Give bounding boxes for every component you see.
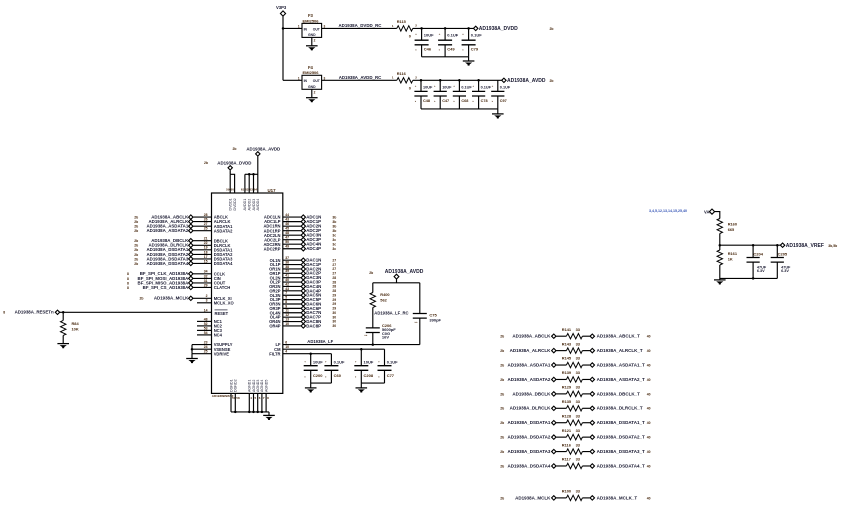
svg-text:+: + (439, 32, 441, 36)
svg-text:C208: C208 (364, 373, 374, 378)
stub wire pin NC1 (197, 320, 212, 322)
svg-text:U17: U17 (268, 188, 277, 193)
svg-text:6.3V: 6.3V (781, 269, 789, 273)
svg-text:10UF: 10UF (364, 360, 374, 365)
ground under F4 (306, 98, 318, 103)
off-page connector AD1938A_DSDATA2 (552, 435, 556, 439)
capacitor C48 10UF (414, 91, 427, 96)
svg-text:2b: 2b (134, 248, 138, 252)
svg-text:2: 2 (206, 294, 208, 298)
svg-text:53: 53 (204, 326, 208, 330)
capacitor C205 47UF (771, 258, 784, 263)
wire net AD1938A_ASDATA1 to pin ASDATA1 (193, 225, 211, 227)
svg-text:25: 25 (204, 227, 208, 231)
wire DVDD pin1 stub (229, 174, 231, 193)
junction AGND rail (248, 411, 251, 414)
svg-text:40: 40 (647, 464, 651, 468)
svg-text:1K: 1K (728, 256, 733, 261)
off-page connector AD1938A_DLRCLK_T (590, 406, 594, 410)
wire pin OL1P to net DAC1P (283, 264, 301, 266)
svg-text:R160: R160 (728, 221, 737, 226)
svg-text:EMI2506: EMI2506 (303, 70, 320, 75)
svg-text:0: 0 (409, 85, 411, 90)
svg-text:F3: F3 (308, 13, 314, 18)
wire net BF_SPI_CS_AD1938A to pin CLATCH (193, 286, 211, 288)
wire LF top rail (373, 282, 420, 284)
svg-text:IN: IN (304, 27, 308, 31)
svg-text:AD1938A_DSDATA3: AD1938A_DSDATA3 (508, 449, 551, 454)
off-page connector AD1938A_DSDATA4_T (590, 464, 594, 468)
svg-text:8: 8 (127, 281, 129, 285)
svg-text:10K: 10K (72, 327, 79, 332)
off-page connector AD1938A_DSDATA3_T (590, 449, 594, 453)
svg-text:MCLK_XO: MCLK_XO (214, 300, 235, 305)
junction AVDD bus (248, 173, 251, 176)
svg-text:2b: 2b (134, 262, 138, 266)
svg-text:40: 40 (647, 378, 651, 382)
svg-text:10: 10 (285, 345, 289, 349)
wire AGND2 pin (253, 393, 255, 412)
off-page connector AD1938A_DLRCLK (189, 243, 193, 247)
svg-text:ADC2RP: ADC2RP (264, 246, 281, 251)
svg-text:AD1938A_DSDATA4: AD1938A_DSDATA4 (146, 261, 188, 266)
wire pin OR3N to net DAC6N (283, 303, 301, 305)
svg-text:AD1938A_MCLK: AD1938A_MCLK (515, 495, 551, 500)
off-page connector AD1938A_DVDD top (228, 166, 232, 170)
svg-text:8: 8 (127, 272, 129, 276)
wire C78 to bottom rail (478, 96, 480, 109)
svg-text:AD1938A_DSDATA4_T: AD1938A_DSDATA4_T (597, 463, 645, 468)
wire C205 to bottom rail (776, 262, 778, 278)
svg-text:30: 30 (332, 324, 336, 328)
svg-text:2b: 2b (134, 220, 138, 224)
wire R143 to AD1938A_ALRCLK_T (582, 350, 590, 352)
svg-text:4: 4 (285, 350, 287, 354)
wire R121 to AD1938A_DSDATA2_T (582, 436, 590, 438)
svg-text:AVDD4: AVDD4 (256, 199, 260, 211)
wire bottom rail to ground (468, 57, 470, 61)
wire net BF_SPI_MISO_AD1938A to pin COUT (193, 282, 211, 284)
off-page connector AD1938A_DSDATA4 (189, 261, 193, 265)
svg-text:43: 43 (285, 218, 289, 222)
junction bottom rail (752, 277, 755, 280)
resistor R117 33 (566, 463, 582, 468)
svg-text:0.1UF: 0.1UF (447, 33, 458, 38)
wire net AD1938A_ASDATA2 to pin ASDATA2 (193, 230, 211, 232)
svg-text:2b: 2b (134, 257, 138, 261)
resistor R161 1K (717, 250, 722, 265)
wire AVDD pin stub x=244.9 (244, 174, 246, 193)
wire C48 to bottom rail (420, 96, 422, 109)
wire pin OL2N to net DAC3N (283, 277, 301, 279)
svg-text:0.1UF: 0.1UF (334, 360, 345, 365)
svg-text:AD1938A_DSDATA2: AD1938A_DSDATA2 (508, 435, 551, 440)
svg-text:2b: 2b (134, 253, 138, 257)
svg-text:AD1938A_DBCLK: AD1938A_DBCLK (512, 391, 551, 396)
wire R129 to AD1938A_DBCLK_T (582, 393, 590, 395)
wire AD1938A_DSDATA1 to R128 (556, 422, 566, 424)
resistor R116 0 ohm (397, 78, 413, 83)
svg-text:AD1938A_ABCLK_T: AD1938A_ABCLK_T (597, 334, 641, 339)
svg-text:AD1938A_AVDD: AD1938A_AVDD (246, 146, 280, 151)
wire net AD1938A_DSDATA3 to pin DSDATA3 (193, 258, 211, 260)
off-page connector AD1938A_ASDATA1 (189, 224, 193, 228)
wire DGND1 pin (230, 393, 232, 412)
wire net AD1938A_MCLK to pin MCLK_XI (193, 297, 211, 299)
wire R117 to AD1938A_DSDATA4_T (582, 465, 590, 467)
wire AD1938A_MCLK to R100 (556, 497, 566, 499)
svg-text:34: 34 (204, 270, 208, 274)
svg-text:DSDATA4: DSDATA4 (214, 261, 233, 266)
svg-text:GND: GND (308, 33, 316, 37)
svg-text:AD1938A_LF: AD1938A_LF (307, 339, 333, 344)
wire C204 to bottom rail (752, 262, 754, 278)
svg-text:GND: GND (308, 85, 316, 89)
wire C49 to bottom rail (444, 45, 446, 57)
wire rail to C79 (468, 28, 470, 40)
off-page connector AD1938A_DSDATA1 (189, 248, 193, 252)
svg-text:2b: 2b (500, 349, 504, 353)
svg-text:2: 2 (314, 90, 316, 94)
off-page connector BF_SPI_MISO_AD1938A (189, 281, 193, 285)
wire DVDD cap bottom rail (422, 56, 469, 58)
svg-text:AD1938A_AVDD: AD1938A_AVDD (507, 78, 546, 84)
wire R116 to AD1938A_DSDATA3_T (582, 451, 590, 453)
wire AD1938A_DSDATA2 to R121 (556, 436, 566, 438)
wire AD1938A_DSDATA4 to R117 (556, 465, 566, 467)
svg-text:AD1938A_ASDATA2: AD1938A_ASDATA2 (146, 228, 188, 233)
off-page connector DAC3N (301, 276, 305, 280)
wire net AD1938A_ABCLK to pin ABCLK (193, 216, 211, 218)
power symbol VA (709, 209, 714, 214)
capacitor C78 0.1UF (472, 91, 485, 96)
wire pin ADC1LP to net ADC1P (283, 221, 301, 223)
svg-text:AD1938A_AVDD_RC: AD1938A_AVDD_RC (339, 75, 382, 80)
capacitor C46 10UF (415, 40, 429, 45)
wire rail to R400 (372, 283, 374, 293)
wire C200 to gnd rail (310, 370, 312, 383)
svg-text:BF_SPI_CS_AD1938A: BF_SPI_CS_AD1938A (143, 285, 189, 290)
svg-text:3c: 3c (332, 242, 336, 246)
wire R135 to AD1938A_DLRCLK_T (582, 407, 590, 409)
wire pin ADC2RP to net ADC4P (283, 248, 301, 250)
svg-text:R117: R117 (562, 457, 571, 462)
svg-text:14: 14 (204, 309, 208, 313)
svg-text:C79: C79 (471, 46, 479, 51)
svg-text:8: 8 (127, 277, 129, 281)
off-page connector AD1938A_ASDATA1_T (590, 363, 594, 367)
svg-text:C77: C77 (387, 373, 395, 378)
off-page connector ADC1P (301, 219, 305, 223)
svg-text:2b: 2b (500, 378, 504, 382)
wire R145 to AD1938A_ASDATA1_T (582, 364, 590, 366)
svg-text:AD1938A_RESETn: AD1938A_RESETn (15, 310, 54, 315)
wire rail to C47 (439, 80, 441, 91)
junction LF C206 (372, 343, 375, 346)
svg-text:DAC8P: DAC8P (306, 323, 321, 328)
svg-text:FILTR: FILTR (269, 351, 280, 356)
wire pin ADC2LN to net ADC3N (283, 234, 301, 236)
svg-text:562: 562 (380, 298, 387, 303)
wire R128 to AD1938A_DSDATA1_T (582, 422, 590, 424)
svg-text:19: 19 (204, 246, 208, 250)
svg-text:40: 40 (647, 450, 651, 454)
stub wire pin NC3 (197, 329, 212, 331)
resistor R121 33 (566, 434, 582, 439)
svg-text:AD1938A_LF_RC: AD1938A_LF_RC (374, 311, 408, 316)
off-page connector AD1938A_ALRCLK_T (590, 348, 594, 352)
svg-text:60: 60 (231, 187, 235, 191)
wire pin OR1P to net DAC2P (283, 272, 301, 274)
junction AGND rail (252, 411, 255, 414)
capacitor C49 0.1UF (438, 40, 452, 45)
wire V3P3 vertical feed (282, 16, 284, 80)
wire pin ADC1RN to net ADC2N (283, 225, 301, 227)
svg-text:R116: R116 (397, 71, 407, 76)
svg-text:AD1938A_MCLK: AD1938A_MCLK (154, 296, 189, 301)
junction rail cap C68 (458, 79, 461, 82)
off-page connector DAC7N (301, 311, 305, 315)
svg-text:2b: 2b (134, 239, 138, 243)
svg-text:IN: IN (304, 79, 308, 83)
wire pair1 to ground (310, 383, 312, 387)
svg-text:AD1938A_VREF: AD1938A_VREF (786, 243, 824, 249)
stub wire pin MCLK_XO (197, 302, 212, 304)
svg-text:40: 40 (647, 392, 651, 396)
svg-text:AD1938A_ASDATA2: AD1938A_ASDATA2 (508, 377, 551, 382)
wire AGND4 pin (261, 393, 263, 412)
svg-text:R400: R400 (380, 292, 389, 297)
off-page connector ADC4N (301, 242, 305, 246)
off-page connector AD1938A_ASDATA2_T (590, 377, 594, 381)
wire DVDD bus (230, 174, 234, 193)
svg-text:0.1UF: 0.1UF (500, 85, 511, 89)
svg-text:DVDD1: DVDD1 (229, 198, 233, 210)
off-page connector AD1938A_DSDATA1_T (590, 421, 594, 425)
junction DGND rail (234, 411, 237, 414)
svg-text:DVDD2: DVDD2 (233, 198, 237, 210)
off-page connector AD1938A_ABCLK (552, 334, 556, 338)
capacitor C206 5600pF (366, 328, 380, 333)
off-page connector AD1938A_ABCLK (189, 215, 193, 219)
svg-text:665: 665 (728, 227, 735, 232)
svg-text:2b: 2b (500, 363, 504, 367)
off-page connector DAC4N (301, 284, 305, 288)
svg-text:1: 1 (298, 77, 300, 81)
off-page connector DAC4P (301, 289, 305, 293)
svg-text:R116: R116 (562, 442, 572, 447)
svg-text:48: 48 (285, 231, 289, 235)
off-page connector ADC3P (301, 238, 305, 242)
svg-text:3c: 3c (332, 233, 336, 237)
svg-text:AD1938A_ASDATA1_T: AD1938A_ASDATA1_T (597, 362, 645, 367)
stub wire pin NC4 (197, 334, 212, 336)
svg-text:40: 40 (647, 349, 651, 353)
svg-text:C49: C49 (447, 46, 455, 51)
wire tie bar to ground (191, 354, 193, 358)
svg-text:31: 31 (204, 279, 208, 283)
off-page connector BF_SPI_CLK_AD1938A (189, 272, 193, 276)
off-page connector AD1938A_VREF (780, 243, 784, 247)
svg-text:0: 0 (409, 34, 411, 39)
wire R100 to AD1938A_MCLK_T (582, 497, 590, 499)
svg-text:R128: R128 (562, 413, 572, 418)
wire F4 GND to ground (311, 89, 313, 97)
wire net AD1938A_DSDATA1 to pin DSDATA1 (193, 249, 211, 251)
svg-text:C97: C97 (500, 99, 507, 103)
wire VREF to C205 (776, 245, 778, 257)
svg-text:2b: 2b (500, 335, 504, 339)
wire bottom ground rail (231, 411, 269, 413)
resistor R141 33 (566, 334, 582, 339)
wire rail to C78 (478, 80, 480, 91)
wire pin OL2P to net DAC3P (283, 281, 301, 283)
wire AD1938A_ASDATA1 to R145 (556, 364, 566, 366)
wire AVDD diamond down pin4 (257, 157, 259, 194)
junction rail cap C78 (477, 79, 480, 82)
junction RESET pulldown (62, 311, 64, 314)
junction rail cap C79 (467, 27, 470, 30)
off-page connector DAC7P (301, 315, 305, 319)
ground VREF divider (714, 280, 726, 285)
off-page connector AD1938A_MCLK (552, 496, 556, 500)
svg-text:3b: 3b (332, 229, 336, 233)
wire VREF cap bottom rail (720, 277, 778, 279)
off-page connector ADC2P (301, 228, 305, 232)
wire AVDD pin stub x=253.5 (253, 174, 255, 193)
wire C208 to gnd rail (360, 370, 362, 383)
svg-text:21: 21 (204, 237, 208, 241)
svg-text:22: 22 (204, 241, 208, 245)
svg-text:ASDATA2: ASDATA2 (214, 228, 233, 233)
wire F4 OUT to R116 (322, 79, 397, 81)
svg-text:C46: C46 (424, 46, 432, 51)
off-page connector AD1938A_DBCLK (552, 392, 556, 396)
svg-text:OR4P: OR4P (269, 324, 280, 329)
wire pin ADC2LP to net ADC3P (283, 239, 301, 241)
off-page connector AD1938A_ASDATA1 (552, 363, 556, 367)
wire rail to C68 (458, 80, 460, 91)
resistor R139 33 (566, 377, 582, 382)
off-page connector DAC6N (301, 302, 305, 306)
wire VA to R160 (715, 212, 720, 219)
svg-text:44: 44 (285, 213, 289, 217)
svg-text:29: 29 (204, 283, 208, 287)
ground cap pair2 (356, 388, 368, 393)
svg-text:VA: VA (704, 209, 710, 214)
wire rail to ground symbol (268, 412, 270, 415)
svg-text:64: 64 (254, 187, 258, 191)
wire AVDD cap bottom rail (421, 108, 498, 110)
wire AVDD bus (245, 173, 258, 175)
wire pin OR4N to net DAC8N (283, 321, 301, 323)
wire bottom rail to ground (497, 109, 499, 114)
svg-text:C204: C204 (753, 251, 763, 256)
wire VREF net (720, 244, 783, 246)
svg-text:3c: 3c (332, 247, 336, 251)
svg-text:49: 49 (285, 245, 289, 249)
svg-text:AD1938A_ABCLK: AD1938A_ABCLK (512, 334, 551, 339)
svg-text:18: 18 (204, 250, 208, 254)
wire C68 to bottom rail (458, 96, 460, 109)
off-page connector DAC3P (301, 280, 305, 284)
off-page connector AD1938A_DSDATA3 (552, 449, 556, 453)
svg-text:10: 10 (285, 322, 289, 326)
resistor R143 33 (566, 348, 582, 353)
svg-text:NC4: NC4 (214, 333, 223, 338)
wire DVDD decoupling rail (413, 27, 476, 29)
wire to R84 (62, 312, 64, 320)
resistor R145 33 (566, 362, 582, 367)
capacitor C68 0.1UF (453, 91, 466, 96)
junction VREF C205 (776, 244, 779, 247)
svg-text:EMI2506: EMI2506 (303, 18, 320, 23)
wire R400 to C206 (372, 308, 374, 328)
svg-text:40: 40 (647, 436, 651, 440)
off-page connector DAC5N (301, 293, 305, 297)
svg-text:R135: R135 (562, 399, 572, 404)
ground IC bottom (263, 415, 275, 420)
wire VREF to C204 (752, 245, 754, 257)
svg-text:AD1938A_DLRCLK_T: AD1938A_DLRCLK_T (597, 406, 643, 411)
svg-text:2b: 2b (500, 436, 504, 440)
wire net BF_SPI_CLK_AD1938A to pin CCLK (193, 273, 211, 275)
junction tie bar (191, 348, 194, 351)
svg-text:C48: C48 (423, 99, 430, 103)
svg-text:15: 15 (204, 259, 208, 263)
wire pair2 to ground (360, 383, 362, 387)
svg-text:V3P3: V3P3 (276, 5, 287, 10)
wire pin OR4P to net DAC8P (283, 325, 301, 327)
wire pin ADC2RN to net ADC4N (283, 243, 301, 245)
wire C206 to LF net (372, 333, 374, 345)
wire rail to C75 (419, 283, 421, 314)
off-page connector AD1938A_ALRCLK (189, 219, 193, 223)
svg-text:54: 54 (204, 331, 208, 335)
svg-text:32: 32 (204, 274, 208, 278)
svg-text:C205: C205 (778, 251, 788, 256)
wire DGND2 pin (234, 393, 236, 412)
capacitor C60 0.1UF (324, 366, 338, 371)
wire R139 to AD1938A_ASDATA2_T (582, 378, 590, 380)
svg-text:OUT: OUT (313, 79, 321, 83)
svg-text:2b: 2b (500, 392, 504, 396)
svg-text:3,4,5,12,13,14,15,25,40: 3,4,5,12,13,14,15,25,40 (649, 209, 687, 213)
svg-text:R141: R141 (562, 327, 572, 332)
resistor R160 665 (717, 219, 722, 234)
wire pin OL3N to net DAC5N (283, 294, 301, 296)
svg-text:28: 28 (204, 213, 208, 217)
svg-text:AD1938WBSTZ: AD1938WBSTZ (212, 394, 234, 398)
wire rail to C48 (420, 80, 422, 91)
svg-text:2b: 2b (134, 229, 138, 233)
svg-text:AD1938A_DSDATA2_T: AD1938A_DSDATA2_T (597, 435, 645, 440)
off-page connector DAC2N (301, 267, 305, 271)
svg-text:6: 6 (285, 341, 287, 345)
svg-text:3b: 3b (332, 215, 336, 219)
svg-text:AD1938A_ASDATA1: AD1938A_ASDATA1 (508, 362, 551, 367)
wire C60 to gnd rail (330, 370, 332, 383)
wire AGND3 pin (257, 393, 259, 412)
svg-text:40: 40 (647, 496, 651, 500)
capacitor C79 0.1UF (462, 40, 476, 45)
svg-text:3: 3 (206, 299, 208, 303)
junction CM cap (360, 348, 363, 351)
wire V3P3 to F4 IN (283, 79, 302, 81)
svg-text:46: 46 (285, 222, 289, 226)
junction VREF node (719, 244, 722, 247)
ground AVDD cap bank (492, 114, 504, 119)
